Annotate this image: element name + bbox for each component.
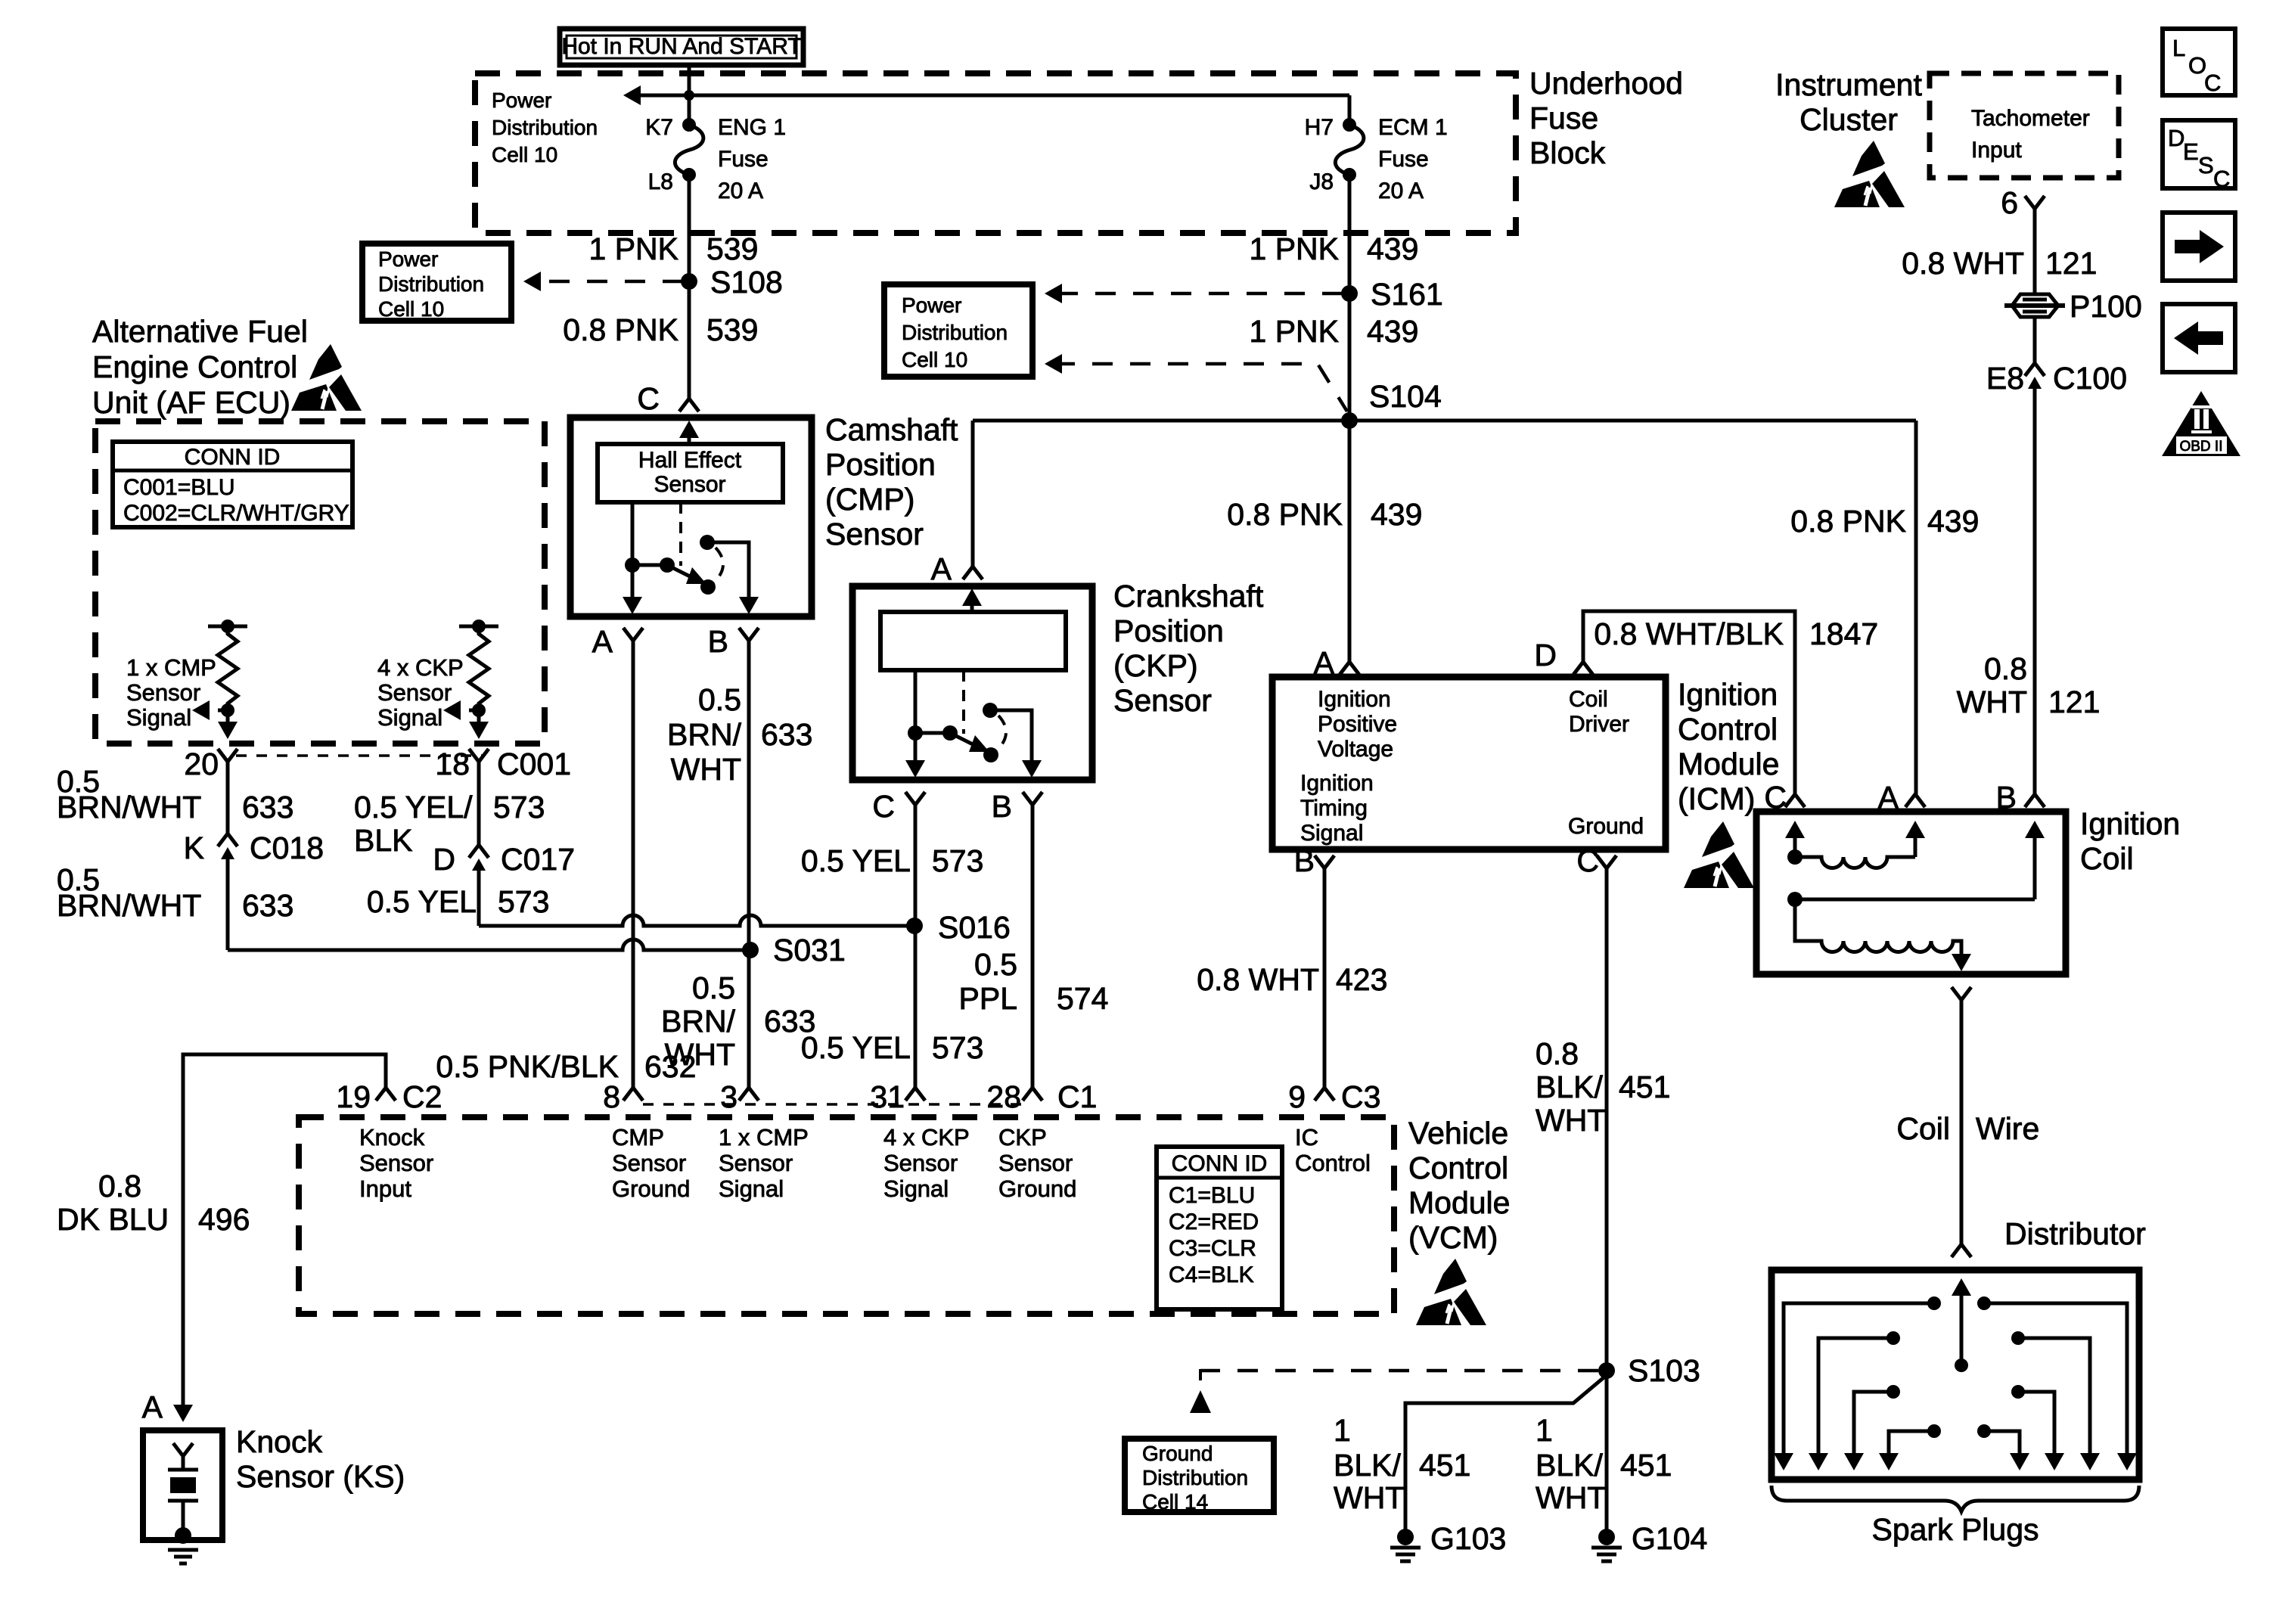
arrow CKP output up (962, 588, 982, 612)
svg-text:0.5 PNK/BLK: 0.5 PNK/BLK (436, 1049, 619, 1084)
svg-text:Sensor: Sensor (377, 679, 452, 706)
connector fork pin 9 C3 (1315, 1088, 1334, 1101)
wire C017 run to splice S016 with hops (479, 915, 914, 926)
inline connector D C017 (469, 845, 489, 878)
switch contact dot CKP (983, 747, 998, 762)
svg-text:Sensor: Sensor (825, 517, 924, 551)
label pin 6 tachometer (2001, 185, 2018, 220)
label pin A knock sensor (142, 1390, 163, 1424)
triangle ground distribution (1190, 1390, 1211, 1413)
label pin C ICM (1576, 843, 1599, 878)
wire feed corner to fuse ECM1 (1348, 95, 1352, 125)
svg-text:CONN ID: CONN ID (185, 445, 281, 470)
dashed box Underhood Fuse Block (475, 73, 1516, 233)
label 4 x CKP Sensor Signal (VCM) (883, 1124, 970, 1202)
wire tachometer to P100 (WHT 121) (2033, 209, 2037, 293)
switch upper contact dot CKP (983, 703, 998, 718)
label K (184, 831, 204, 865)
label G104 (1632, 1521, 1707, 1556)
dashed actuator line CMP (679, 502, 682, 566)
wire ICM pin D loop to coil pin C (WHT/BLK 1847) (1583, 611, 1795, 794)
resistor R1 1xCMP pull-up (208, 619, 247, 717)
arrow CMP output up (679, 421, 699, 444)
wire S104 to ICM pin A covered above - fork (1340, 662, 1359, 675)
label 0.8 PNK 539 (563, 312, 758, 347)
connector fork pin 19 C2 (376, 1088, 396, 1101)
svg-text:G104: G104 (1632, 1521, 1707, 1556)
ESD symbol AF ECU (291, 344, 362, 411)
svg-text:BLK/: BLK/ (1536, 1448, 1603, 1483)
spark plug wire 1 (1774, 1296, 1941, 1470)
inline connector K C018 (218, 834, 238, 867)
svg-text:0.8 PNK: 0.8 PNK (1790, 504, 1906, 539)
svg-text:L: L (2172, 35, 2185, 61)
svg-text:S161: S161 (1371, 277, 1443, 312)
label 1 BLK/ WHT 451 (G103) (1334, 1413, 1470, 1515)
label Vehicle Control Module (VCM) (1408, 1116, 1510, 1255)
svg-text:Signal: Signal (126, 704, 191, 731)
svg-text:A: A (142, 1390, 163, 1424)
svg-text:WHT: WHT (1957, 685, 2027, 719)
wire C018 run to splice S031 with hop (228, 939, 750, 950)
svg-text:121: 121 (2045, 246, 2097, 281)
label 0.5 BRN/ WHT 633 (below S031) (661, 970, 815, 1072)
svg-text:K7: K7 (645, 115, 673, 140)
connector fork pin A CMP (623, 628, 643, 641)
reference box Power Distribution Cell 10 (middle) (884, 284, 1032, 377)
svg-text:Coil: Coil (1896, 1111, 1950, 1146)
svg-text:C: C (1576, 843, 1599, 878)
svg-text:Coil: Coil (2080, 841, 2134, 876)
ESD symbol ICM (1684, 821, 1754, 888)
svg-text:573: 573 (498, 884, 549, 919)
label C1 (1057, 1079, 1097, 1114)
connector fork pin D ICM (1573, 662, 1593, 675)
switch contact dot CMP (700, 579, 716, 595)
label pin B CKP (992, 789, 1012, 824)
label 0.8 WHT/BLK 1847 (1594, 616, 1878, 651)
ground dot knock sensor (175, 1527, 191, 1544)
svg-text:451: 451 (1619, 1070, 1670, 1104)
svg-text:Ground: Ground (1142, 1442, 1213, 1465)
svg-text:Sensor: Sensor (612, 1150, 686, 1176)
svg-text:Sensor: Sensor (654, 472, 725, 497)
wire R2 to connector C001 pin 18 (469, 710, 489, 739)
svg-text:S031: S031 (773, 933, 846, 967)
svg-text:E: E (2183, 138, 2199, 165)
switch bar CMP (632, 564, 667, 567)
connector fork pin C CKP (905, 792, 925, 805)
svg-text:Control: Control (1408, 1150, 1508, 1185)
svg-text:C100: C100 (2053, 361, 2127, 396)
svg-text:C001=BLU: C001=BLU (123, 475, 235, 500)
svg-text:Position: Position (1113, 613, 1224, 648)
connector fork pin 20 C001 (218, 749, 238, 762)
component box Ignition Coil (1756, 812, 2066, 974)
svg-text:1 PNK: 1 PNK (589, 231, 679, 266)
svg-text:(VCM): (VCM) (1408, 1220, 1498, 1255)
label C3 (1341, 1079, 1380, 1114)
svg-text:(CMP): (CMP) (825, 482, 914, 517)
label Knock Sensor (KS) (236, 1424, 405, 1494)
label 0.8 PNK 439 (coil feed) (1790, 504, 1979, 539)
svg-text:S104: S104 (1369, 379, 1442, 414)
svg-text:539: 539 (706, 231, 758, 266)
reference box Power Distribution Cell 10 (left) (362, 244, 511, 321)
svg-text:31: 31 (870, 1079, 905, 1114)
svg-text:Distribution: Distribution (378, 272, 484, 296)
svg-text:BLK/: BLK/ (1334, 1448, 1401, 1483)
svg-text:Ground: Ground (998, 1175, 1076, 1202)
switch arm arrow CKP (950, 733, 989, 752)
svg-text:451: 451 (1419, 1448, 1470, 1483)
svg-text:633: 633 (761, 717, 812, 752)
connector fork pin 6 (2025, 196, 2045, 209)
svg-text:B: B (708, 624, 728, 659)
svg-text:Tachometer: Tachometer (1971, 106, 2090, 131)
label 1 PNK 539 (589, 231, 759, 266)
svg-text:C: C (2204, 70, 2221, 96)
svg-text:633: 633 (242, 888, 293, 923)
svg-text:Power: Power (492, 88, 551, 112)
label D (433, 842, 455, 877)
connector fork pin 18 C001 (469, 749, 489, 762)
svg-text:Distribution: Distribution (902, 321, 1008, 344)
wire S104 horizontal rail (973, 419, 1916, 423)
connector fork pin C ICM (1597, 855, 1616, 868)
svg-text:0.5 YEL: 0.5 YEL (801, 843, 911, 878)
wire CKP pin B to VCM pin 28 (1031, 805, 1035, 1088)
label ENG 1 Fuse 20 A (718, 115, 786, 203)
coil primary winding tap dot (1787, 849, 1803, 865)
label Distributor (2004, 1216, 2146, 1251)
svg-text:Ignition: Ignition (2080, 806, 2180, 841)
label L8 (648, 169, 673, 194)
label Camshaft Position (CMP) Sensor (825, 412, 958, 551)
svg-text:P100: P100 (2070, 289, 2142, 324)
label 0.8 PNK 439 (ICM feed) (1227, 497, 1422, 532)
svg-text:Cell 14: Cell 14 (1142, 1490, 1208, 1514)
connector fork pin 31 (905, 1088, 925, 1101)
svg-text:C2=RED: C2=RED (1169, 1209, 1259, 1234)
svg-text:C: C (872, 789, 895, 824)
svg-text:Module: Module (1678, 747, 1779, 781)
label CMP Sensor Ground (612, 1124, 690, 1202)
label pin A ICM (1314, 645, 1335, 680)
svg-text:Spark Plugs: Spark Plugs (1871, 1512, 2039, 1547)
label 0.5 PPL 574 (959, 947, 1109, 1016)
svg-text:9: 9 (1288, 1079, 1306, 1114)
label 1 PNK 439 (lower) (1250, 314, 1419, 349)
svg-text:C4=BLK: C4=BLK (1169, 1262, 1254, 1287)
svg-text:Cell 10: Cell 10 (378, 297, 444, 321)
coil secondary tap dot (1787, 892, 1803, 907)
svg-text:BLK: BLK (354, 823, 413, 858)
svg-text:Ground: Ground (612, 1175, 690, 1202)
label 1 BLK/ WHT 451 (G104) (1536, 1413, 1672, 1515)
svg-text:J8: J8 (1309, 169, 1334, 194)
svg-text:Underhood: Underhood (1529, 66, 1683, 101)
component box CKP sensor (852, 586, 1092, 780)
svg-text:0.8 WHT: 0.8 WHT (1902, 246, 2024, 281)
label 0.8 WHT 121 (lower) (1957, 651, 2101, 719)
fuse F1 ENG 1 20A (675, 118, 703, 182)
svg-text:Position: Position (825, 447, 936, 482)
svg-text:0.8: 0.8 (1536, 1036, 1579, 1071)
svg-text:IC: IC (1295, 1124, 1318, 1150)
label pin C CKP (872, 789, 895, 824)
svg-text:ENG 1: ENG 1 (718, 115, 786, 140)
svg-text:20 A: 20 A (718, 179, 763, 203)
svg-text:20 A: 20 A (1378, 179, 1424, 203)
label pin A CKP (931, 551, 952, 586)
svg-text:Positive: Positive (1318, 712, 1397, 737)
splice S108 (681, 273, 697, 290)
wire coil B bar (1795, 898, 2035, 902)
svg-text:439: 439 (1367, 231, 1418, 266)
legend box DESC (2163, 120, 2235, 192)
label Knock Sensor Input (359, 1124, 433, 1202)
ground G103 (1390, 1529, 1421, 1561)
label Ground (ICM) (1568, 814, 1644, 839)
dashed reference arrow S108 to Power Distribution (523, 272, 683, 291)
legend OBD II triangle (2162, 391, 2240, 456)
label Ignition Coil (2080, 806, 2180, 876)
grommet P100 (2004, 294, 2065, 317)
svg-text:Sensor: Sensor (359, 1150, 433, 1176)
label pin 31 (870, 1079, 905, 1114)
svg-text:19: 19 (336, 1079, 371, 1114)
svg-text:CKP: CKP (998, 1124, 1047, 1150)
label pin 3 (720, 1079, 737, 1114)
wire CMP internal left to pin A (623, 502, 642, 614)
inline connector E8 C100 (2025, 363, 2045, 396)
label IC Control (1295, 1124, 1371, 1176)
svg-text:0.8 PNK: 0.8 PNK (563, 312, 678, 347)
component box CMP sensor (570, 418, 812, 616)
svg-text:BRN/WHT: BRN/WHT (57, 888, 201, 923)
svg-text:A: A (592, 624, 613, 659)
label ECM 1 Fuse 20 A (1378, 115, 1448, 203)
inner box CKP element (880, 612, 1066, 670)
svg-text:0.8: 0.8 (98, 1169, 141, 1203)
svg-text:439: 439 (1367, 314, 1418, 349)
spark plug wire 5 (1977, 1296, 2137, 1470)
label Power Distribution Cell 10 (fuse block) (492, 88, 598, 166)
resistor R2 4xCKP pull-up (459, 619, 498, 717)
label 0.5 BRN/WHT 633 (above C018) (57, 764, 293, 824)
svg-text:Ground: Ground (1568, 814, 1644, 839)
svg-text:Ignition: Ignition (1678, 677, 1778, 712)
label Ignition Positive Voltage (1318, 687, 1397, 762)
svg-text:Ignition: Ignition (1318, 687, 1391, 712)
svg-text:Power: Power (902, 293, 961, 317)
label pin 20 C001 (184, 747, 219, 781)
ESD symbol instrument cluster (1834, 141, 1905, 207)
label 1 PNK 439 (upper) (1250, 231, 1419, 266)
spark plug wire 7 (2011, 1385, 2064, 1470)
svg-text:CMP: CMP (612, 1124, 664, 1150)
svg-text:S103: S103 (1628, 1353, 1700, 1388)
label S016 (938, 910, 1011, 945)
svg-text:C001: C001 (497, 747, 571, 781)
svg-text:451: 451 (1620, 1448, 1672, 1483)
label pin B ICM (1294, 843, 1315, 878)
fuse F2 ECM 1 20A (1335, 118, 1364, 182)
inner box Hall Effect Sensor (598, 444, 783, 502)
wire fuse ECM1 down to ICM pin A (PNK 439) (1348, 175, 1352, 662)
svg-text:0.5 YEL/: 0.5 YEL/ (354, 790, 473, 824)
wire coil output to distributor (coil wire) (1960, 1000, 1964, 1244)
wire pin 18 to connector C017 (YEL/BLK 573) (477, 762, 481, 846)
svg-text:C3=CLR: C3=CLR (1169, 1236, 1256, 1261)
svg-text:G103: G103 (1430, 1521, 1506, 1556)
label Ignition Control Module (ICM) (1678, 677, 1779, 816)
wire CMP pin B to VCM pin 3 (747, 641, 751, 1088)
connector fork pin A CKP (963, 567, 983, 579)
svg-text:Power: Power (378, 247, 438, 271)
label Instrument Cluster (1775, 67, 1922, 137)
svg-text:Wire: Wire (1976, 1111, 2039, 1146)
svg-text:0.8 WHT: 0.8 WHT (1197, 962, 1319, 997)
component box Distributor (1772, 1270, 2139, 1480)
svg-text:Input: Input (1971, 138, 2022, 163)
svg-text:0.8 PNK: 0.8 PNK (1227, 497, 1343, 532)
dashed box Tachometer Input (1930, 73, 2119, 178)
spark plug wire 6 (2011, 1331, 2100, 1470)
svg-text:Camshaft: Camshaft (825, 412, 958, 447)
label C017 (501, 842, 575, 877)
svg-text:0.8 WHT/BLK: 0.8 WHT/BLK (1594, 616, 1784, 651)
wire VCM pin 19 to knock sensor (DK BLU 496) (173, 1054, 386, 1422)
switch bar CKP (915, 731, 950, 735)
label Ignition Timing Signal (1300, 771, 1374, 846)
connector fork pin B CKP (1023, 792, 1042, 805)
svg-text:Engine Control: Engine Control (92, 349, 297, 384)
svg-text:1 PNK: 1 PNK (1250, 314, 1340, 349)
connector fork pin A knock sensor (173, 1443, 193, 1456)
svg-text:C: C (637, 381, 660, 416)
spark plug wire 2 (1809, 1331, 1900, 1470)
label 0.8 DK BLU 496 (57, 1169, 250, 1237)
svg-text:0.5 YEL: 0.5 YEL (801, 1030, 911, 1065)
svg-text:Distribution: Distribution (1142, 1466, 1248, 1489)
dashed box Vehicle Control Module (299, 1117, 1394, 1314)
label pin C of CMP (637, 381, 660, 416)
dashed actuator line CKP (962, 670, 965, 734)
svg-text:OBD II: OBD II (2179, 439, 2222, 455)
svg-text:Sensor (KS): Sensor (KS) (236, 1459, 405, 1494)
svg-text:1847: 1847 (1809, 616, 1878, 651)
svg-text:Fuse: Fuse (718, 147, 769, 172)
wire fuse ENG1 to CMP sensor pin C (PNK 539) (688, 175, 691, 399)
svg-text:C1=BLU: C1=BLU (1169, 1183, 1255, 1208)
label G103 (1430, 1521, 1506, 1556)
svg-text:Hall Effect: Hall Effect (638, 448, 742, 473)
wire CKP internal left to pin C (905, 670, 925, 778)
label pin B coil (1996, 780, 2017, 815)
svg-text:Control: Control (1678, 712, 1778, 747)
svg-text:574: 574 (1057, 981, 1108, 1016)
svg-text:573: 573 (932, 1030, 983, 1065)
wire ICM pin C to splice S103 and ground G104 (BLK/WHT 451) (1605, 868, 1609, 1539)
svg-text:Distribution: Distribution (492, 116, 598, 139)
connector fork distributor input (1952, 1244, 1971, 1257)
svg-text:Signal: Signal (377, 704, 442, 731)
wire C017 down (YEL 573) (477, 875, 481, 926)
wire pin 20 to connector C018 (BRN/WHT 633) (226, 762, 230, 834)
table CONN ID (AF ECU) (113, 442, 352, 527)
wire S103 to ground G103 (BLK/WHT 451) (1405, 1375, 1607, 1539)
component box Ignition Control Module (1272, 677, 1666, 849)
legend box LOC (2163, 29, 2235, 96)
label Coil Wire (1896, 1111, 2039, 1146)
wire S104 rail down to CKP pin A (971, 421, 975, 567)
svg-text:573: 573 (932, 843, 983, 878)
arrow distributor rotor (1952, 1278, 1971, 1372)
wire from Hot In RUN to junction (688, 65, 691, 95)
switch pivot dots CKP (908, 725, 958, 741)
label C001 (497, 747, 571, 781)
label 0.8 WHT 423 (1197, 962, 1387, 997)
svg-text:0.5: 0.5 (692, 970, 735, 1005)
label 1 x CMP Sensor Signal (126, 654, 216, 731)
svg-text:28: 28 (986, 1079, 1021, 1114)
svg-text:Knock: Knock (236, 1424, 322, 1459)
svg-text:Coil: Coil (1569, 687, 1608, 712)
legend box arrow right (2163, 213, 2235, 281)
svg-text:Alternative Fuel: Alternative Fuel (92, 314, 308, 349)
svg-text:C3: C3 (1341, 1079, 1380, 1114)
connector fork pin B CMP (739, 628, 759, 641)
splice S016 (906, 918, 923, 934)
label pin A CMP (592, 624, 613, 659)
svg-text:Module: Module (1408, 1185, 1510, 1220)
svg-text:539: 539 (706, 312, 758, 347)
svg-text:Signal: Signal (883, 1175, 949, 1202)
dashed connector line C1 (643, 1103, 1026, 1106)
svg-text:Fuse: Fuse (1529, 101, 1598, 135)
svg-text:439: 439 (1927, 504, 1979, 539)
label 0.5 BRN/WHT 633 (below C018) (57, 862, 293, 923)
label S104 (1369, 379, 1442, 414)
dashed arc CMP switch (714, 548, 723, 582)
label 0.5 YEL 573 (CKP C upper) (801, 843, 984, 878)
label pin D ICM (1534, 638, 1557, 672)
wire CKP pin C to VCM pin 31 (914, 805, 918, 1088)
svg-text:BLK/: BLK/ (1536, 1070, 1603, 1104)
label Crankshaft Position (CKP) Sensor (1113, 579, 1264, 718)
svg-text:Sensor: Sensor (126, 679, 200, 706)
svg-text:1 x CMP: 1 x CMP (719, 1124, 809, 1150)
splice S161 (1341, 285, 1358, 302)
svg-text:D: D (1534, 638, 1557, 672)
svg-text:0.5 YEL: 0.5 YEL (367, 884, 477, 919)
spark plug wire 4 (1879, 1424, 1941, 1470)
switch arm arrow CMP (667, 565, 706, 584)
dashed connector line C001 (236, 754, 484, 757)
svg-text:BRN/: BRN/ (661, 1004, 736, 1039)
svg-text:Fuse: Fuse (1378, 147, 1429, 172)
svg-text:121: 121 (2048, 685, 2100, 719)
svg-text:Sensor: Sensor (719, 1150, 793, 1176)
label CKP Sensor Ground (998, 1124, 1076, 1202)
svg-text:423: 423 (1336, 962, 1387, 997)
arrow coil pin B internal (2025, 821, 2045, 899)
svg-text:B: B (992, 789, 1012, 824)
dashed wire S103 to ground distribution (1200, 1369, 1598, 1387)
svg-text:1: 1 (1536, 1413, 1553, 1448)
